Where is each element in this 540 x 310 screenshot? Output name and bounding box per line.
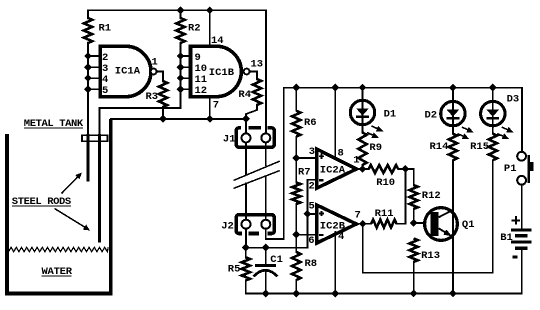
wire IC2B output down and over to R15 bbox=[363, 160, 493, 273]
svg-text:R14: R14 bbox=[430, 141, 449, 153]
wire D3 top bbox=[492, 88, 494, 102]
pushbutton P1 bbox=[504, 152, 534, 185]
wire D3 to R15 bbox=[492, 126, 494, 134]
wire IC1B pin 14 bbox=[209, 10, 211, 46]
wire R10 right to node bbox=[398, 168, 405, 170]
svg-text:1: 1 bbox=[152, 57, 158, 69]
svg-text:6: 6 bbox=[308, 235, 314, 247]
label STEEL RODS bbox=[12, 196, 71, 208]
wire R2 top stub bbox=[180, 10, 182, 18]
svg-text:13: 13 bbox=[251, 59, 264, 71]
tank right wall bbox=[109, 119, 113, 295]
wire IC1B output to R4 bbox=[250, 72, 257, 80]
wire R11 left bbox=[363, 223, 372, 225]
svg-text:R7: R7 bbox=[298, 167, 311, 179]
resistor R2 bbox=[176, 18, 184, 43]
wire R6 top bbox=[295, 88, 297, 111]
wire J2 right socket to op-amp rail bbox=[266, 88, 284, 239]
wire R9 bottom to IC2A output bbox=[362, 165, 364, 169]
svg-text:R11: R11 bbox=[375, 208, 394, 220]
op-amp IC2A bbox=[309, 146, 360, 192]
wire IC1A pin stubs bbox=[88, 56, 101, 89]
label WATER bbox=[42, 266, 73, 278]
svg-text:2: 2 bbox=[102, 52, 108, 64]
resistor R11 bbox=[371, 220, 396, 228]
resistor R6 bbox=[292, 111, 300, 137]
battery B1 bbox=[500, 216, 531, 258]
resistor R7 bbox=[292, 183, 300, 205]
wire top supply rail bbox=[88, 9, 266, 11]
wire R5 bottom corner bbox=[245, 280, 247, 293]
label METAL TANK bbox=[24, 118, 84, 130]
transistor Q1 bbox=[425, 208, 475, 241]
svg-text:B1: B1 bbox=[500, 232, 513, 244]
svg-text:R12: R12 bbox=[422, 190, 441, 202]
svg-text:R15: R15 bbox=[470, 141, 489, 153]
svg-text:D3: D3 bbox=[507, 94, 520, 106]
NAND gate IC1B bbox=[191, 35, 264, 112]
IC1B input pin dots bbox=[177, 52, 185, 93]
wire P1 to battery bbox=[521, 185, 523, 229]
wire R7 top bbox=[295, 158, 297, 183]
wire rod2 horizontal run bbox=[99, 108, 180, 136]
svg-text:D1: D1 bbox=[384, 109, 397, 121]
wire R8 bottom to ground bus bbox=[295, 280, 297, 294]
wire node stub to R12 bbox=[405, 169, 413, 185]
tank left wall bbox=[5, 134, 9, 295]
wire IC2B pin 4 bbox=[334, 232, 336, 294]
resistor R8 bbox=[292, 252, 300, 280]
svg-text:12: 12 bbox=[195, 85, 208, 97]
wire J1 left socket cable (break gap) bbox=[245, 142, 247, 219]
IC1A input pin dots bbox=[84, 52, 92, 93]
wire C1 top bbox=[265, 248, 267, 265]
battery plus sign bbox=[512, 216, 520, 224]
wire R1 top stub bbox=[87, 10, 89, 18]
wire R13 bottom to ground bus bbox=[413, 262, 415, 294]
svg-text:R13: R13 bbox=[421, 250, 440, 262]
resistor R3 bbox=[159, 81, 167, 107]
wire IC1A input column down to tank rod1 bbox=[87, 43, 89, 136]
svg-text:C1: C1 bbox=[270, 254, 283, 266]
LED D3 bbox=[481, 94, 520, 139]
svg-text:2: 2 bbox=[309, 180, 315, 192]
svg-text:IC1A: IC1A bbox=[115, 66, 141, 78]
wire D1 top bbox=[362, 88, 364, 101]
svg-text:R1: R1 bbox=[99, 23, 112, 35]
LED D1 bbox=[350, 100, 396, 138]
wire R4 bottom kink to bus bbox=[246, 105, 257, 119]
svg-text:9: 9 bbox=[195, 52, 201, 64]
wire IC2A pin 3 bbox=[296, 157, 315, 159]
svg-text:3: 3 bbox=[309, 146, 315, 158]
wire R12 bottom to base node bbox=[413, 209, 415, 223]
svg-text:J1: J1 bbox=[223, 134, 236, 146]
resistor R14 bbox=[449, 134, 457, 161]
op-amp IC2B bbox=[308, 200, 361, 247]
battery minus sign bbox=[512, 256, 517, 259]
svg-text:J2: J2 bbox=[221, 221, 234, 233]
svg-text:R5: R5 bbox=[228, 264, 241, 276]
wire D1 to R9 bbox=[362, 125, 364, 133]
wire D2 to R14 bbox=[452, 126, 454, 134]
water surface bbox=[9, 247, 109, 251]
svg-text:P1: P1 bbox=[504, 163, 517, 175]
svg-text:4: 4 bbox=[102, 74, 108, 86]
wire battery minus down to ground bus bbox=[521, 250, 523, 294]
svg-text:4: 4 bbox=[338, 231, 344, 243]
resistor R10 bbox=[369, 165, 399, 173]
svg-text:R2: R2 bbox=[188, 23, 201, 35]
wire IC1A output to R3 bbox=[157, 72, 164, 82]
svg-text:IC2A: IC2A bbox=[320, 165, 346, 177]
wire rail down to P1 bbox=[521, 88, 523, 152]
wire IC2B pin 6 bbox=[296, 234, 315, 236]
wire C1 bottom bbox=[265, 271, 267, 294]
wire bus dot down to J1 left socket bbox=[245, 119, 247, 133]
wire R14 down through Q1 to ground bus bbox=[452, 160, 454, 293]
svg-text:IC1B: IC1B bbox=[209, 67, 235, 79]
svg-text:8: 8 bbox=[338, 148, 344, 160]
wire IC1B pin 7 bbox=[209, 97, 211, 119]
resistor R5 bbox=[242, 257, 250, 280]
wire R6 bottom to node bbox=[295, 137, 297, 158]
connector J1 bbox=[236, 128, 274, 147]
svg-text:5: 5 bbox=[102, 85, 108, 97]
rod mounting bracket bbox=[82, 135, 108, 141]
resistor R9 bbox=[358, 133, 366, 166]
NAND gate IC1A bbox=[100, 46, 158, 97]
wire IC2A pin 8 bbox=[334, 88, 336, 159]
svg-text:7: 7 bbox=[213, 100, 219, 112]
arrow to rod 1 bbox=[62, 173, 83, 194]
steel rod 2 bbox=[98, 134, 101, 243]
svg-text:1: 1 bbox=[353, 155, 359, 167]
tank bottom bbox=[5, 292, 112, 296]
arrow to rod 2 bbox=[55, 209, 91, 231]
svg-text:14: 14 bbox=[211, 35, 224, 47]
svg-text:R6: R6 bbox=[304, 117, 317, 129]
ground bus bbox=[246, 293, 522, 295]
resistor R1 bbox=[84, 18, 92, 43]
wire R10 left bbox=[363, 168, 369, 170]
resistor R15 bbox=[489, 134, 497, 161]
svg-text:5: 5 bbox=[309, 200, 315, 212]
svg-text:7: 7 bbox=[355, 210, 361, 222]
svg-text:R10: R10 bbox=[376, 177, 395, 189]
wire IC1B pin stubs bbox=[181, 56, 192, 89]
svg-text:R3: R3 bbox=[146, 91, 159, 103]
capacitor C1 bbox=[254, 254, 283, 277]
wire R3 bottom bbox=[162, 107, 164, 119]
steel rod 1 bbox=[86, 134, 89, 182]
wire IC2A output stub bbox=[356, 168, 362, 170]
wire IC1B input column down bbox=[180, 43, 182, 108]
wire top rail down to J1 right socket bbox=[265, 10, 267, 133]
wire R5 top bbox=[245, 248, 247, 258]
wire R7 bottom to node bbox=[295, 204, 297, 235]
wire IC2A pin 2 bbox=[307, 180, 315, 214]
wire R11 right up to node bbox=[396, 169, 405, 224]
svg-text:R4: R4 bbox=[238, 89, 251, 101]
cable break symbol bbox=[234, 161, 279, 188]
wire base node to Q1 bbox=[414, 222, 425, 224]
svg-text:Q1: Q1 bbox=[462, 219, 475, 231]
connector J2 bbox=[236, 215, 274, 234]
LED D2 bbox=[425, 101, 474, 138]
wire IC2B output stub bbox=[356, 223, 362, 225]
svg-text:R9: R9 bbox=[369, 142, 382, 154]
wire J1 right socket cable (break gap) bbox=[265, 142, 267, 219]
resistor R13 bbox=[409, 238, 417, 262]
wire sense node run to op-amp inputs bbox=[246, 214, 307, 248]
wire R8 top bbox=[295, 235, 297, 252]
svg-text:D2: D2 bbox=[425, 110, 438, 122]
resistor R12 bbox=[409, 185, 417, 209]
wire tank wall to signal bus bbox=[111, 118, 246, 120]
svg-text:11: 11 bbox=[195, 74, 208, 86]
wire IC2B pin 5 bbox=[307, 213, 315, 215]
wire J2 left socket down to node bbox=[245, 229, 247, 248]
resistor R4 bbox=[253, 79, 261, 105]
svg-text:R8: R8 bbox=[305, 258, 318, 270]
wire D2 top bbox=[452, 88, 454, 102]
wire op-amp supply rail bbox=[284, 87, 522, 89]
